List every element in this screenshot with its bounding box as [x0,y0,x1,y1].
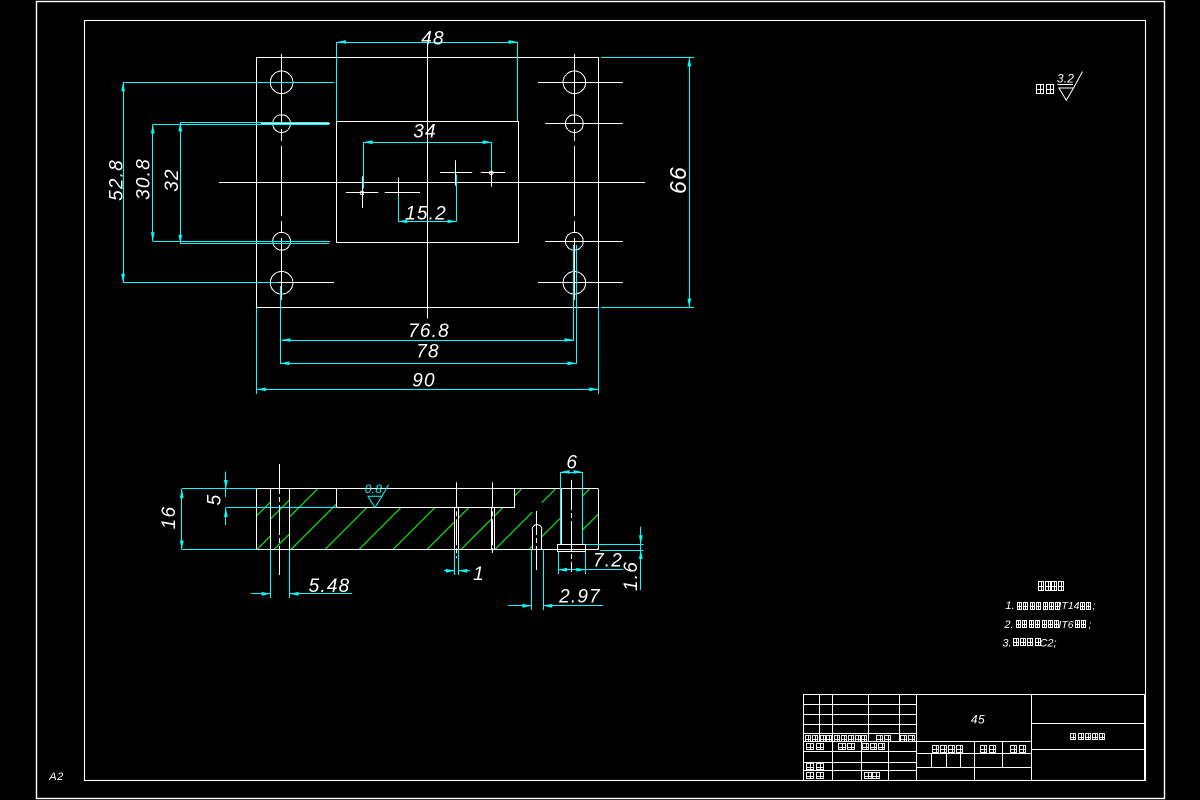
section: 5.48 hole walls [270,489,272,550]
svg-text:;: ; [1093,601,1096,612]
svg-text:34: 34 [413,122,437,143]
section: bolt centerline [571,480,573,572]
dimension 76.8 [282,340,574,342]
label gong-yi (process) [806,772,814,779]
svg-text:32: 32 [162,168,183,192]
technical requirements title [1038,581,1044,591]
svg-text:;: ; [1089,620,1092,631]
plan: pin position crosshair D [481,172,505,174]
svg-text:52.8: 52.8 [107,159,128,201]
svg-text:5: 5 [205,494,226,506]
note: qi-yu (rest) text [1036,84,1044,94]
dimension 5.48 [251,593,271,595]
svg-text:C2;: C2; [1039,638,1056,650]
section: pin C centerline [456,482,458,558]
section: feature voids [532,525,542,550]
svg-text:3.: 3. [1002,638,1011,650]
label biao-zhun-hua (standardization) [862,743,869,750]
dimension 7.2 [558,569,585,571]
dimension 16 [181,489,183,550]
section: recess floor and steps [337,507,515,509]
plan: pin position crosshair A [346,192,379,194]
svg-text:30.8: 30.8 [134,158,155,200]
section: round pin centerline [536,511,538,571]
title block signature area grid [804,751,916,753]
plan: pin position crosshair C [440,172,472,174]
section: round pin (2.97) [532,530,534,550]
dimension 1 [444,570,455,572]
section hatch (45deg green) [257,489,599,550]
plan view: pocket rectangle 48x32 [337,122,519,243]
section: bolt head [558,545,586,552]
svg-text:0.8: 0.8 [365,482,383,496]
dimension 1.6 [640,527,642,590]
surface finish 0.8 on recess floor [368,485,389,508]
title block revision area grid [804,704,916,706]
svg-text:7.2: 7.2 [593,551,623,572]
svg-text:IT6: IT6 [1058,619,1073,631]
plan: corner holes small (4x d4.7) [273,115,291,133]
svg-text:2.: 2. [1003,619,1013,631]
label ri-qi (date) [864,772,872,779]
dimension 2.97 [508,605,531,607]
title block right section rows [1031,723,1145,725]
svg-text:3.2: 3.2 [1057,72,1074,86]
plan hole crosshairs [259,82,334,84]
plan view: vertical centerline [427,44,429,319]
label tu-yang-biao-ji (drawing mark) [932,745,939,753]
dimension 48 [337,42,518,44]
title block middle section grid [916,741,1031,743]
svg-text:48: 48 [421,29,445,50]
plan: right hole column centerline [574,54,576,300]
plan view: plate outline 90x66 [257,58,599,308]
svg-text:2.97: 2.97 [558,587,601,608]
label she-ji (design) [806,743,814,750]
svg-text:A2: A2 [48,771,63,783]
plan: pin position crosshair B [385,192,420,194]
label biao-ji row [805,735,811,742]
plan: left hole column centerline [281,54,283,300]
surface finish symbol 3.2 [1058,72,1083,101]
plan view: horizontal centerline [219,182,645,184]
title block outline [804,695,1145,781]
section: bolt shank walls [561,489,563,544]
dimension 30.8 [152,125,154,242]
svg-text:6: 6 [566,453,578,474]
dimension 66 [689,58,691,308]
dimension 52.8 [123,82,125,282]
plan: cyan extension verticals through hole columns [280,286,282,364]
svg-text:78: 78 [416,342,440,363]
part name [1070,733,1076,740]
section: pin D centerline [492,482,494,553]
label bi-li (scale) [1010,745,1017,753]
svg-text:76.8: 76.8 [408,321,450,342]
label middle signature [838,743,846,750]
svg-text:45: 45 [971,713,985,727]
dimension 6 [561,472,583,474]
svg-text:1: 1 [473,564,485,585]
svg-text:IT14: IT14 [1058,600,1079,612]
section: pin C hole [454,508,456,550]
section: part outline [257,488,599,490]
svg-text:90: 90 [412,371,436,392]
plan: corner holes big (4x d6) [270,71,293,94]
dimension 90 [257,389,598,391]
svg-text:66: 66 [665,166,691,194]
svg-text:15.2: 15.2 [405,204,447,225]
dimension 34 [364,142,492,144]
dimension 5 [225,472,227,498]
label shen-he (checked) [806,763,814,770]
dimension 15.2 [398,221,456,223]
section: 5.48 hole centerline [279,464,281,575]
svg-text:1.: 1. [1005,600,1014,612]
svg-text:1.6: 1.6 [621,561,642,591]
dimension 78 [280,363,576,365]
svg-text:16: 16 [159,506,180,530]
svg-text:5.48: 5.48 [309,576,351,597]
dimension 32 [180,123,182,244]
section: pin D hole [491,508,493,550]
label shu-liang (quantity) [980,745,987,753]
